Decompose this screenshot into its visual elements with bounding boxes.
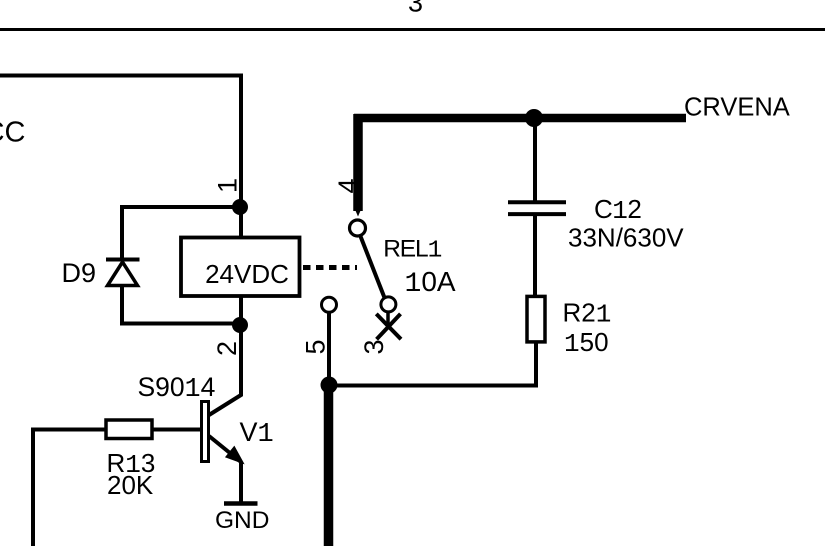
- svg-text:S9014: S9014: [138, 372, 216, 404]
- wire coil to node 2: [239, 297, 243, 333]
- wire pin 5 to node: [327, 312, 331, 385]
- switch arm: [360, 235, 385, 299]
- taper to contact: [354, 206, 363, 217]
- svg-text:33N/630V: 33N/630V: [568, 223, 684, 253]
- junction dot bottom: [321, 377, 338, 394]
- svg-text:5: 5: [301, 339, 331, 354]
- resistor R21 body: [527, 296, 545, 342]
- ground bar: [224, 501, 258, 506]
- thick wire to contact 4: [353, 114, 363, 211]
- svg-text:REL1: REL1: [383, 236, 441, 265]
- wire emitter to ground: [239, 462, 243, 503]
- capacitor C12 top plate: [508, 200, 566, 204]
- wire node1 to relay coil: [239, 207, 243, 237]
- dashed actuator link: [303, 265, 357, 270]
- wire left to R13: [33, 430, 106, 546]
- svg-text:2: 2: [212, 341, 242, 356]
- wire diode anode to node 2: [122, 285, 240, 324]
- svg-text:GND: GND: [215, 507, 269, 534]
- svg-text:20K: 20K: [107, 470, 154, 500]
- svg-text:4: 4: [333, 178, 363, 193]
- wire node 2 to collector: [209, 333, 241, 415]
- svg-text:3: 3: [359, 339, 389, 354]
- node 2 junction dot: [232, 317, 248, 333]
- svg-text:10A: 10A: [405, 266, 456, 300]
- junction dot on bus: [525, 109, 543, 127]
- wire R13 to base: [152, 428, 201, 432]
- contact pin 3 circle: [381, 297, 396, 312]
- thick wire down: [324, 388, 334, 546]
- open contact X mark: [376, 314, 401, 339]
- contact pin 4 circle: [350, 220, 366, 236]
- contact pin 5 circle: [322, 297, 337, 312]
- wire bus to C12: [533, 118, 537, 202]
- node 1 junction dot: [232, 199, 248, 215]
- resistor R13 body: [106, 420, 152, 439]
- svg-text:CC: CC: [0, 116, 26, 148]
- wire node to R21: [329, 342, 536, 386]
- svg-text:CRVENA: CRVENA: [684, 94, 790, 122]
- wire node1 to diode cathode: [122, 207, 240, 260]
- svg-text:24VDC: 24VDC: [205, 259, 289, 289]
- contact stem: [386, 312, 390, 328]
- transistor V1 emitter: [209, 436, 241, 462]
- transistor V1 base bar: [202, 402, 209, 462]
- wire VCC to node 1: [0, 76, 241, 208]
- diode D9 cathode bar: [106, 258, 140, 262]
- relay coil box REL1: [181, 238, 300, 297]
- svg-text:3: 3: [408, 0, 423, 18]
- svg-text:R21: R21: [563, 298, 612, 330]
- diode D9 triangle: [108, 262, 138, 286]
- sheet border line: [0, 28, 825, 31]
- svg-text:150: 150: [564, 327, 609, 359]
- svg-text:V1: V1: [240, 417, 274, 450]
- transistor V1 emitter arrow: [227, 447, 243, 462]
- svg-text:1: 1: [213, 178, 243, 193]
- svg-text:C12: C12: [594, 194, 641, 226]
- thick wire CRVENA bus: [354, 114, 686, 123]
- wire C12 to R21: [533, 216, 537, 297]
- capacitor C12 bottom plate: [508, 212, 566, 216]
- svg-text:D9: D9: [62, 258, 97, 288]
